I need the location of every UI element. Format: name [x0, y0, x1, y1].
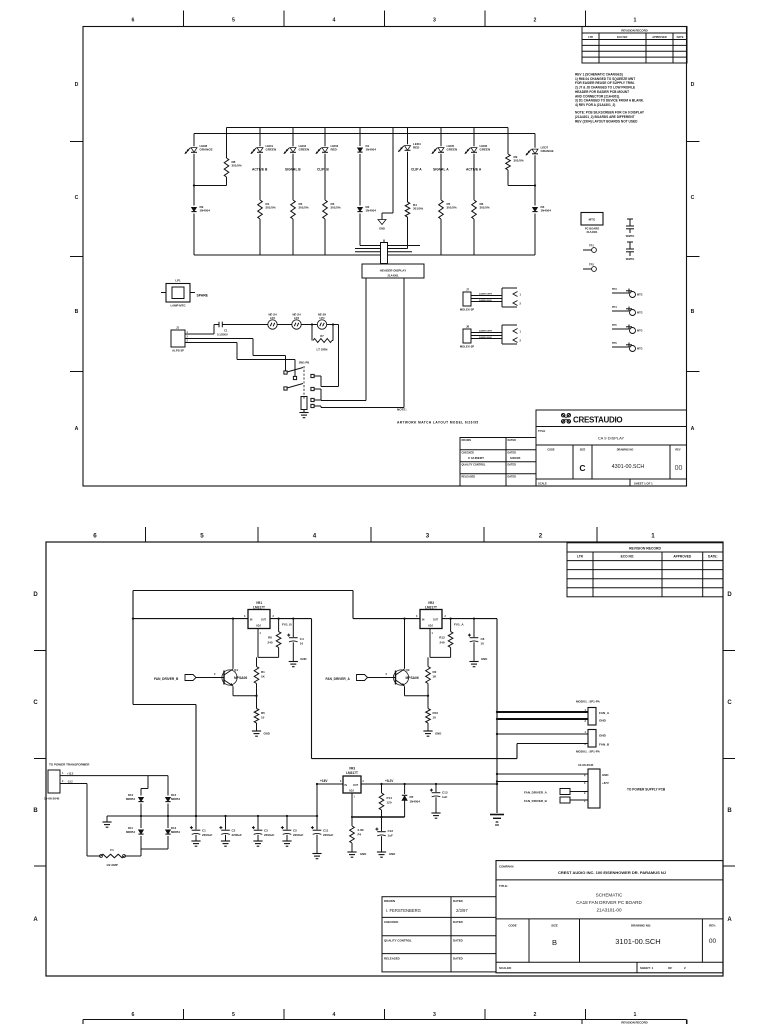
sheet 2 company row: [499, 864, 666, 875]
sheet 1 revision table: [582, 27, 687, 64]
svg-text:2: 2: [539, 533, 543, 540]
wire connector feed lines: [355, 246, 420, 252]
svg-text:2200uF: 2200uF: [323, 833, 334, 837]
lamp LP3 neon: [292, 313, 301, 330]
svg-text:2/3/97: 2/3/97: [456, 908, 468, 913]
svg-text:2: 2: [520, 339, 522, 343]
wire collector Q1: [232, 617, 234, 668]
svg-text:NOTE:: NOTE:: [397, 408, 407, 412]
svg-text:1K: 1K: [261, 675, 266, 679]
svg-text:2: 2: [534, 18, 537, 24]
svg-text:C1: C1: [202, 829, 206, 833]
wire +28V top rail: [133, 590, 353, 592]
ground C11: [312, 854, 321, 859]
svg-text:C: C: [579, 463, 585, 473]
resistor R1 column: [258, 200, 276, 255]
svg-text:B: B: [552, 938, 557, 947]
svg-text:2: 2: [187, 335, 189, 338]
svg-text:3: 3: [187, 339, 189, 342]
svg-text:1: 1: [520, 293, 522, 297]
sheet 1 title block signature rows: [460, 438, 536, 487]
test point TP3: [612, 288, 643, 298]
svg-text:3: 3: [416, 615, 418, 618]
connector J2 transformer: [44, 763, 90, 801]
svg-text:2: 2: [445, 615, 447, 618]
svg-text:GND: GND: [264, 732, 270, 736]
svg-text:I. FERSTENBERG: I. FERSTENBERG: [386, 908, 421, 913]
svg-text:SHEET: 1: SHEET: 1: [640, 966, 654, 970]
svg-text:4) REV FOR A (21A4301_2): 4) REV FOR A (21A4301_2): [575, 103, 615, 107]
svg-text:ORANGE: ORANGE: [200, 148, 213, 152]
spare lamp LP1: [161, 279, 209, 308]
svg-text:D5: D5: [410, 795, 414, 799]
wire VR2 adj: [430, 629, 451, 658]
svg-text:SIGNAL B: SIGNAL B: [285, 168, 301, 172]
LED LED2 column: [284, 128, 309, 201]
svg-text:NE-2H: NE-2H: [268, 313, 276, 317]
test point TP6: [612, 342, 643, 352]
svg-text:CA 9 DISPLAY: CA 9 DISPLAY: [598, 436, 625, 441]
wire lamp3 right: [327, 323, 339, 325]
svg-text:301/5%: 301/5%: [266, 206, 277, 210]
ground C1: [191, 841, 200, 846]
svg-text:QUALITY CONTROL: QUALITY CONTROL: [384, 939, 412, 943]
wire +18V to VR3: [317, 783, 343, 785]
LED LED6 column: [465, 128, 490, 201]
svg-text:OUT: OUT: [433, 619, 439, 622]
svg-text:GND: GND: [435, 732, 441, 736]
svg-text:B: B: [75, 309, 79, 315]
svg-text:OUT: OUT: [353, 784, 359, 787]
svg-text:SW1-PB: SW1-PB: [299, 361, 310, 365]
svg-text:LT GRN: LT GRN: [317, 348, 328, 352]
diode D2 column 6 bottom: [357, 205, 376, 246]
svg-text:2: 2: [62, 780, 64, 783]
diode D1 column 6 top: [357, 128, 376, 206]
switch SW1 contacts right: [311, 374, 321, 400]
wire J7 harness: [471, 293, 502, 302]
svg-text:+87V: +87V: [602, 781, 609, 785]
diode D5: [402, 784, 420, 817]
svg-text:+8.2V: +8.2V: [385, 779, 394, 783]
wire channel A bus: [353, 618, 497, 620]
svg-text:DATE:: DATE:: [708, 555, 718, 559]
wire jog col1-col2: [194, 185, 227, 187]
resistor R9 column 11: [506, 128, 524, 186]
wire lamp2-lamp3: [301, 323, 317, 325]
sheet 3 revision table top: [582, 1020, 687, 1025]
svg-text:GND: GND: [379, 227, 385, 231]
connector J4 FAN_A: [576, 700, 610, 726]
svg-text:Q2: Q2: [406, 668, 410, 672]
wire J1 pin1 to lamps: [189, 325, 219, 335]
svg-text:LM317T: LM317T: [425, 606, 437, 610]
svg-text:REVISION RECORD: REVISION RECORD: [621, 1021, 647, 1024]
svg-text:10-06-2040: 10-06-2040: [44, 797, 60, 801]
svg-text:D: D: [75, 82, 79, 88]
svg-text:C12: C12: [388, 829, 394, 833]
svg-text:3: 3: [584, 782, 586, 785]
sheet 2 title block signature rows: [382, 897, 496, 972]
sheet 2 title rows: [499, 884, 642, 913]
svg-text:22AWG BLK: 22AWG BLK: [479, 299, 492, 302]
svg-text:IN: IN: [250, 619, 253, 622]
connector J3 label box: [362, 264, 424, 278]
wire J1 pin2 to switch: [189, 339, 286, 371]
svg-text:IN: IN: [345, 784, 348, 787]
svg-text:1N4004: 1N4004: [366, 148, 377, 152]
wire lamp1-lamp2: [277, 324, 292, 326]
wire harness left from J3: [321, 278, 366, 401]
svg-text:+18V: +18V: [320, 779, 328, 783]
svg-text:ADJ: ADJ: [349, 790, 354, 793]
sheet 2 top zone ticks and numbers: [93, 527, 655, 542]
svg-text:6: 6: [93, 533, 97, 540]
svg-text:2200uF: 2200uF: [264, 833, 275, 837]
svg-text:C13: C13: [442, 791, 448, 795]
LED LED3 column: [316, 128, 339, 201]
svg-text:2: 2: [363, 781, 365, 783]
net label FV1_B: [282, 622, 292, 626]
svg-text:C11: C11: [323, 829, 329, 833]
switch SW1 pole lower: [284, 376, 303, 390]
svg-text:MPSA06: MPSA06: [406, 676, 419, 680]
ground C8: [469, 657, 487, 667]
capacitor C1 on lamp wire: [217, 322, 228, 337]
diode D10 bridge: [126, 789, 144, 817]
svg-text:GND: GND: [481, 657, 487, 661]
svg-text:1: 1: [354, 797, 356, 799]
capacitor C2 spare: [626, 219, 635, 238]
svg-text:SHEET 1 OF 1: SHEET 1 OF 1: [634, 481, 653, 485]
svg-text:MODU1_-2P1-PA: MODU1_-2P1-PA: [576, 700, 601, 704]
svg-text:SIGNAL A: SIGNAL A: [433, 168, 449, 172]
svg-text:RELEASED: RELEASED: [384, 956, 400, 960]
svg-text:C4: C4: [300, 637, 304, 641]
wire transformer pin1: [66, 776, 168, 792]
svg-text:DATE: DATE: [677, 35, 684, 39]
svg-text:B: B: [33, 808, 38, 814]
svg-text:D: D: [33, 592, 38, 598]
svg-text:0.1/250V: 0.1/250V: [217, 333, 228, 337]
svg-text:IN: IN: [422, 619, 425, 622]
svg-text:2200uF: 2200uF: [293, 833, 304, 837]
resistor R14: [379, 783, 392, 817]
svg-text:6: 6: [132, 1012, 135, 1018]
svg-text:W/MTG: W/MTG: [626, 258, 635, 261]
wire channel B output drop: [312, 619, 518, 759]
wire VR3 out rail: [361, 779, 498, 785]
ground sheet1 center: [378, 220, 386, 231]
svg-text:CA18 FAN DRIVER PC BOARD: CA18 FAN DRIVER PC BOARD: [576, 900, 642, 905]
svg-text:FAN_B: FAN_B: [599, 743, 610, 747]
wire J8 harness: [471, 330, 502, 339]
svg-text:APPROVED: APPROVED: [673, 555, 692, 559]
capacitor C4: [287, 617, 304, 660]
svg-text:F1: F1: [110, 848, 114, 852]
svg-text:2: 2: [386, 672, 388, 676]
svg-text:21A3101-00: 21A3101-00: [596, 908, 621, 913]
svg-text:MTG: MTG: [589, 218, 596, 222]
svg-text:GREEN: GREEN: [299, 148, 310, 152]
svg-text:R7: R7: [320, 334, 324, 338]
sheet 2 border frame: [46, 542, 723, 976]
svg-text:TP3: TP3: [612, 288, 617, 291]
wire FAN_A pair: [497, 712, 588, 719]
svg-text:CHECKED: CHECKED: [384, 920, 398, 924]
svg-text:PC BOARD: PC BOARD: [585, 227, 599, 231]
capacitor C3 spare: [626, 242, 635, 261]
svg-text:GND: GND: [389, 852, 395, 856]
svg-text:240: 240: [267, 641, 272, 645]
svg-text:+13.2: +13.2: [67, 772, 74, 775]
resistor R12: [439, 617, 453, 657]
svg-text:C: C: [691, 195, 695, 201]
svg-text:GREEN: GREEN: [266, 148, 277, 152]
wire upper bus sheet1: [227, 127, 509, 129]
svg-text:10: 10: [300, 642, 304, 646]
svg-text:DATED: DATED: [508, 439, 517, 442]
svg-text:ADJ: ADJ: [256, 625, 261, 628]
wire cap to lamp1: [222, 324, 267, 326]
svg-text:240: 240: [439, 641, 444, 645]
resistor R15: [350, 826, 365, 852]
svg-text:00: 00: [675, 465, 683, 472]
svg-text:LP2: LP2: [270, 316, 275, 320]
svg-text:FAN_DRIVER_B: FAN_DRIVER_B: [524, 799, 548, 803]
ground C5: [282, 841, 291, 846]
svg-text:DATED: DATED: [453, 920, 463, 924]
svg-text:C: C: [33, 700, 38, 706]
svg-text:MODU1_-2P1-PA: MODU1_-2P1-PA: [576, 750, 601, 754]
svg-text:ARTWORK MATCH LAYOUT MODEL 6/2: ARTWORK MATCH LAYOUT MODEL 6/26/95: [397, 421, 479, 425]
capacitor C12: [375, 816, 393, 852]
capacitor C13: [430, 784, 448, 813]
svg-text:TP1: TP1: [589, 244, 594, 248]
svg-text:1: 1: [62, 772, 64, 775]
svg-text:A: A: [75, 426, 79, 432]
svg-text:MR854: MR854: [171, 797, 180, 801]
svg-text:GREEN: GREEN: [447, 148, 458, 152]
svg-text:301/5%: 301/5%: [299, 206, 310, 210]
svg-text:MTG: MTG: [637, 348, 643, 351]
capacitor C8: [468, 617, 485, 660]
svg-text:A: A: [33, 917, 38, 923]
ground DC bus left: [102, 816, 111, 827]
svg-text:D: D: [727, 592, 732, 598]
svg-text:NE-2H: NE-2H: [292, 313, 300, 317]
label to power supply: [627, 788, 666, 792]
svg-text:FV1_A: FV1_A: [454, 622, 464, 626]
svg-text:GND: GND: [360, 852, 366, 856]
resistor R1: [254, 657, 265, 697]
ground C12: [377, 852, 395, 857]
svg-text:REVISION RECORD: REVISION RECORD: [629, 547, 661, 551]
svg-text:QUALITY CONTROL: QUALITY CONTROL: [462, 463, 486, 466]
svg-text:1N4004: 1N4004: [200, 209, 211, 213]
svg-text:5: 5: [200, 533, 204, 540]
svg-text:ORANGE: ORANGE: [541, 149, 554, 153]
svg-text:P4: P4: [358, 833, 362, 837]
svg-text:R10: R10: [433, 711, 439, 715]
resistor R5 column: [439, 200, 457, 255]
svg-text:DRAWN: DRAWN: [384, 899, 395, 903]
svg-text:DRAWING NO:: DRAWING NO:: [631, 924, 651, 928]
svg-text:R5: R5: [261, 711, 265, 715]
wire bridge top feed: [141, 776, 148, 789]
svg-text:2: 2: [584, 792, 586, 795]
ground Q2 emitter: [423, 731, 441, 736]
svg-text:COMPANY:: COMPANY:: [499, 864, 514, 868]
wire lower bus sheet1: [194, 133, 535, 135]
svg-text:J1: J1: [176, 326, 180, 330]
svg-text:R6: R6: [268, 636, 272, 640]
wire bridge bottom: [141, 848, 168, 850]
ground C4: [289, 657, 307, 667]
svg-text:120: 120: [387, 801, 392, 805]
net +18V label: [320, 779, 328, 783]
svg-text:GND: GND: [300, 657, 306, 661]
svg-text:LAMP-MTG: LAMP-MTG: [170, 304, 185, 308]
svg-text:22AWG WHT: 22AWG WHT: [479, 293, 493, 296]
test point TP5: [612, 324, 643, 334]
svg-text:W/MTG: W/MTG: [626, 235, 635, 238]
ground switch: [299, 410, 308, 418]
svg-text:22AWG BLK: 22AWG BLK: [479, 336, 492, 339]
svg-text:VR3: VR3: [349, 767, 355, 771]
note text sheet1: [397, 408, 479, 425]
svg-text:3101-00.SCH: 3101-00.SCH: [615, 937, 660, 946]
sheet 1 size code drawing cells: [538, 449, 682, 486]
sheet 2 side ticks: [34, 651, 735, 867]
net label FV1_A: [454, 622, 464, 626]
svg-text:Q1: Q1: [234, 668, 238, 672]
svg-text:D: D: [691, 82, 695, 88]
sheet 2 code size drawing cells: [499, 924, 716, 971]
test point TP4: [612, 306, 643, 316]
wire lamps down to switch: [321, 325, 339, 387]
svg-text:SCALE: SCALE: [538, 481, 547, 485]
sheet 1 row letters: [75, 82, 695, 432]
svg-text:6: 6: [132, 18, 135, 24]
svg-text:J8: J8: [466, 325, 470, 329]
svg-text:2: 2: [520, 302, 522, 306]
svg-text:TP4: TP4: [612, 306, 617, 309]
svg-text:MOLEX-3P: MOLEX-3P: [460, 345, 474, 349]
svg-text:C: C: [75, 195, 79, 201]
wire channel B bus: [132, 617, 312, 619]
svg-text:1K: 1K: [433, 675, 438, 679]
svg-text:1N4004: 1N4004: [366, 209, 377, 213]
svg-text:1N4004: 1N4004: [541, 209, 552, 213]
svg-text:1: 1: [634, 18, 637, 24]
svg-text:SCHEMATIC: SCHEMATIC: [596, 893, 623, 898]
resistor R5: [254, 696, 265, 731]
svg-text:TP2: TP2: [589, 263, 594, 267]
svg-text:2200uF: 2200uF: [232, 833, 243, 837]
svg-text:2: 2: [585, 720, 587, 723]
LED LED4 column 8: [398, 128, 422, 203]
svg-text:R2: R2: [433, 670, 437, 674]
svg-text:5: 5: [232, 1012, 235, 1018]
diode D11 bridge: [126, 816, 144, 849]
svg-text:MR854: MR854: [126, 830, 135, 834]
wire jog col11-col12: [508, 184, 536, 186]
svg-text:MPSA06: MPSA06: [234, 676, 247, 680]
resistor R4 column 8: [405, 202, 423, 249]
svg-text:REVISION RECORD: REVISION RECORD: [621, 29, 647, 33]
off-sheet arrows J8: [502, 325, 522, 344]
resistor R6 column: [472, 200, 490, 255]
resistor R3 column: [323, 200, 341, 255]
svg-text:RED: RED: [413, 146, 420, 150]
svg-text:2: 2: [684, 966, 686, 970]
connector J6 power supply: [497, 763, 609, 808]
svg-text:MR854: MR854: [171, 830, 180, 834]
svg-text:OUT: OUT: [261, 619, 267, 622]
svg-text:B: B: [691, 309, 695, 315]
wire ground stub column 7: [382, 128, 393, 220]
svg-text:VR2: VR2: [428, 601, 434, 605]
svg-text:LP4: LP4: [320, 316, 325, 320]
ground main trunk: [490, 815, 504, 826]
svg-text:TP6: TP6: [612, 342, 617, 345]
wire J1 pin3 to switch: [189, 343, 295, 377]
svg-text:1: 1: [520, 330, 522, 334]
svg-text:1uF: 1uF: [388, 834, 394, 838]
svg-text:DATED: DATED: [453, 956, 463, 960]
svg-text:MTG: MTG: [637, 312, 643, 315]
wire channel A feed: [352, 591, 354, 619]
svg-text:LP1: LP1: [175, 279, 181, 283]
svg-text:6/26/95: 6/26/95: [510, 456, 521, 460]
diode D13 bridge: [165, 816, 180, 849]
wire GND trunk: [496, 619, 498, 813]
capacitor C1 bank: [190, 815, 213, 841]
svg-text:00: 00: [709, 938, 717, 945]
svg-text:A: A: [691, 426, 695, 432]
wire base Q1: [196, 677, 224, 679]
wire cap1 stub: [195, 816, 197, 830]
wire emitter Q2: [405, 686, 429, 696]
svg-text:LTR: LTR: [577, 555, 584, 559]
LED LED5 column: [432, 128, 457, 201]
svg-text:10: 10: [481, 642, 485, 646]
ground C13: [431, 813, 440, 818]
svg-text:C3: C3: [264, 829, 268, 833]
connector J5 FAN_B: [576, 730, 610, 754]
input tag FAN_DRIVER_B: [154, 672, 216, 681]
svg-text:FV1_B: FV1_B: [282, 622, 292, 626]
resistor R8 column 2: [224, 128, 242, 186]
svg-text:ALPS-3P: ALPS-3P: [172, 349, 184, 353]
sheet 1 top zone ticks and numbers: [132, 11, 637, 27]
input tag FAN_DRIVER_A j6: [524, 789, 588, 795]
svg-text:1: 1: [634, 1012, 637, 1018]
svg-text:LM317T: LM317T: [253, 606, 265, 610]
wire VR3 adj node: [351, 793, 405, 826]
connector J8: [460, 325, 474, 349]
diode D12 bridge: [165, 792, 180, 817]
sheet 1 title block main: [536, 410, 687, 486]
svg-text:TP5: TP5: [612, 324, 617, 327]
svg-text:GND: GND: [599, 719, 607, 723]
svg-text:1uF: 1uF: [442, 795, 448, 799]
transistor Q2: [393, 668, 418, 686]
svg-text:RED: RED: [331, 148, 338, 152]
svg-text:301/5%: 301/5%: [413, 207, 424, 211]
wire VR1 adj: [258, 629, 279, 658]
